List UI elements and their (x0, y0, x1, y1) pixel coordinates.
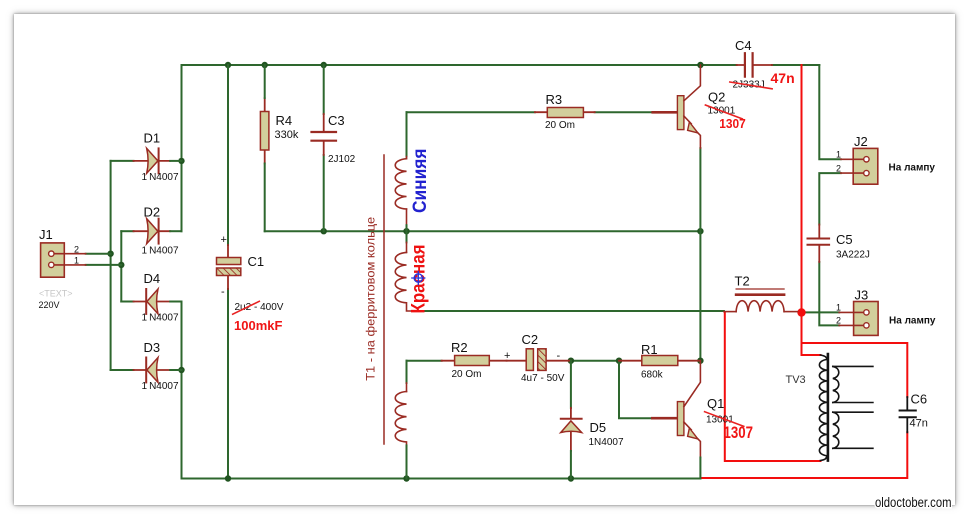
wire left vertical upper (D1-D2 cathodes) (181, 65, 183, 231)
svg-text:TV3: TV3 (786, 374, 806, 386)
svg-text:2: 2 (836, 316, 841, 326)
svg-text:C3: C3 (328, 113, 345, 128)
svg-text:oldoctober.com: oldoctober.com (875, 495, 952, 510)
wire J1 pin2 to vertical (86, 253, 111, 255)
svg-text:1 N4007: 1 N4007 (142, 172, 179, 183)
junction middle rail at T1 (403, 228, 409, 234)
svg-text:C1: C1 (248, 254, 265, 269)
svg-text:1: 1 (74, 256, 79, 266)
wire left vertical lower (D4-D3 anodes) (181, 302, 183, 479)
wire Q1 base branch (619, 361, 652, 419)
junction bottom rail at T1 winding (403, 475, 409, 481)
junction on D2-D4 vertical at J1 pin 1 (118, 262, 124, 268)
connector J3 (836, 288, 936, 336)
transformer TV3 (786, 354, 873, 461)
svg-text:100mkF: 100mkF (234, 318, 282, 333)
svg-text:D1: D1 (144, 131, 161, 146)
svg-text:4u7 - 50V: 4u7 - 50V (521, 373, 565, 384)
transistor Q1 (652, 361, 753, 479)
svg-text:1: 1 (836, 303, 841, 313)
wire top rail (+) (182, 64, 820, 66)
svg-text:T1 - на ферритовом кольце: T1 - на ферритовом кольце (364, 216, 378, 380)
svg-text:47n: 47n (910, 418, 928, 430)
capacitor C4 (730, 38, 795, 91)
diode D2 (121, 205, 181, 257)
wire top rail corner down to J2 pin 1 (819, 65, 841, 159)
svg-text:C2: C2 (522, 332, 539, 347)
blue origin marker on Красная (412, 272, 425, 285)
wire D1-D3 vertical (J1 pin 2) (110, 161, 112, 370)
diode D1 (111, 131, 182, 184)
junction middle rail at C3 (321, 228, 327, 234)
wire R2 line from T1 bottom winding (407, 360, 442, 362)
svg-text:На лампу: На лампу (889, 315, 936, 327)
svg-text:47n: 47n (771, 70, 795, 86)
wire red dot to J3 pin 1 (805, 311, 839, 313)
svg-text:D3: D3 (144, 340, 161, 355)
diode D5 (vertical, cathode up) (561, 361, 624, 479)
svg-text:На лампу: На лампу (889, 162, 936, 174)
svg-text:Красная: Красная (409, 245, 430, 314)
inductor T1 winding 2 (red) (395, 231, 412, 311)
wire D2-D4 vertical (J1 pin 1) (120, 231, 122, 301)
svg-text:1 N4007: 1 N4007 (142, 381, 179, 392)
svg-text:C5: C5 (836, 232, 853, 247)
svg-text:D5: D5 (590, 420, 607, 435)
wire Q2 emitter to Q1 collector vertical (699, 148, 701, 361)
big red junction dot at T2/J3 node (797, 308, 805, 316)
svg-text:R3: R3 (546, 92, 563, 107)
svg-text:1307: 1307 (719, 116, 746, 131)
junction C2 out / D5 (568, 358, 574, 364)
red wire branch to C6 top (802, 343, 908, 397)
svg-text:1307: 1307 (724, 423, 754, 442)
resistor R2 (442, 340, 507, 380)
svg-text:220V: 220V (39, 300, 60, 310)
svg-text:20 Om: 20 Om (545, 120, 575, 131)
resistor R4 (260, 65, 298, 231)
svg-text:R1: R1 (641, 342, 658, 357)
wire R3 feed from T1 blue winding top (407, 111, 653, 113)
junction bottom rail at C1 (225, 475, 231, 481)
svg-text:J1: J1 (39, 227, 53, 242)
wire bottom rail (-) (182, 478, 701, 480)
inductor T2 (724, 274, 798, 312)
junction D1 cathode (178, 158, 184, 164)
wire J2 pin2 down through C5 to J3 pin2 (819, 173, 841, 325)
svg-text:+: + (504, 350, 510, 362)
svg-text:T2: T2 (735, 274, 750, 289)
svg-text:2J102: 2J102 (328, 154, 356, 165)
capacitor C5 (808, 225, 870, 263)
svg-text:1 N4007: 1 N4007 (142, 246, 179, 257)
svg-text:2: 2 (836, 164, 841, 174)
svg-text:C6: C6 (911, 392, 928, 407)
junction R1 left / Q1 base branch (616, 358, 622, 364)
svg-text:R4: R4 (276, 113, 293, 128)
connector J2 (836, 134, 935, 184)
svg-text:C4: C4 (735, 38, 752, 53)
junction top rail at Q2 collector (697, 62, 703, 68)
svg-text:330k: 330k (275, 129, 299, 141)
wire T1 red winding bottom to T2 (long) (412, 310, 724, 312)
junction top rail at C3 (321, 62, 327, 68)
svg-text:-: - (557, 350, 561, 362)
svg-text:-: - (221, 286, 225, 298)
svg-text:+: + (221, 234, 227, 246)
svg-text:3A222J: 3A222J (836, 250, 870, 261)
connector J1 (39, 227, 86, 310)
transformer T1 core line (383, 155, 385, 444)
svg-text:R2: R2 (451, 340, 468, 355)
svg-text:Синияя: Синияя (409, 149, 431, 214)
svg-text:<TEXT>: <TEXT> (39, 289, 73, 299)
junction top rail at C1 (225, 62, 231, 68)
transistor Q2 (653, 65, 746, 148)
red wire T2 left down to TV3 primary bottom (725, 313, 821, 462)
svg-text:Q2: Q2 (708, 90, 725, 105)
wire J1 pin1 to vertical (86, 264, 122, 266)
red wire C6 bottom to emitter rail (701, 432, 907, 478)
svg-text:2: 2 (74, 245, 79, 255)
junction half-bridge midpoint at R1 (697, 358, 703, 364)
svg-text:1 N4007: 1 N4007 (142, 313, 179, 324)
wire C1 vertical (227, 65, 229, 479)
junction top rail at R4 (262, 62, 268, 68)
capacitor C2 (electrolytic horizontal) (504, 332, 571, 384)
svg-text:20 Om: 20 Om (452, 369, 482, 380)
svg-text:1N4007: 1N4007 (589, 437, 624, 448)
red wire C4 node down to T2 node and TV3 primary top (701, 65, 907, 478)
svg-text:1: 1 (836, 150, 841, 160)
resistor R3 (535, 92, 595, 131)
svg-text:J3: J3 (855, 288, 869, 303)
junction on D1-D3 vertical at J1 pin 2 (107, 251, 113, 257)
svg-text:680k: 680k (641, 370, 664, 381)
capacitor C1 (electrolytic) (217, 234, 284, 333)
junction middle rail at Q2 emitter (697, 228, 703, 234)
capacitor C3 (312, 65, 356, 231)
inductor T1 winding 3 (bottom) (395, 361, 406, 479)
svg-text:D4: D4 (144, 271, 161, 286)
diode D3 (mirrored) (111, 340, 182, 392)
svg-text:J2: J2 (854, 134, 868, 149)
wire C2 out to R1 junction (571, 360, 619, 362)
svg-text:D2: D2 (144, 205, 161, 220)
wire middle rail (R4/C3 bottom to Q2 emitter) (265, 230, 701, 232)
junction D3 anode (178, 367, 184, 373)
svg-text:2u2 - 400V: 2u2 - 400V (235, 302, 284, 313)
capacitor C6 (900, 392, 928, 433)
junction bottom rail at D5 (568, 475, 574, 481)
inductor T1 winding 1 (blue) (395, 112, 406, 231)
svg-text:Q1: Q1 (707, 396, 724, 411)
resistor R1 (619, 342, 700, 381)
diode D4 (mirrored) (121, 271, 181, 324)
